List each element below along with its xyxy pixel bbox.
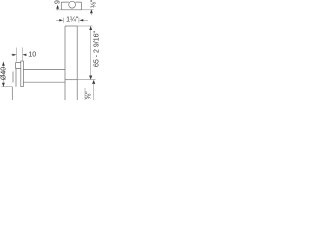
arrow right, dim 1 1/4 left bbox=[59, 19, 63, 21]
svg-text:Ø40: Ø40 bbox=[1, 67, 8, 80]
dim line 65 vertical bbox=[90, 26, 92, 80]
ext stub 1 1/4 left bbox=[63, 18, 65, 23]
ext line plate bottom left bbox=[1, 86, 12, 88]
top view plate outline bbox=[61, 2, 81, 10]
ext line front view top edge right bbox=[77, 25, 92, 27]
top view hook circle bbox=[69, 1, 76, 8]
arrow up, dim 3/8 (top view right) bbox=[90, 9, 93, 13]
dim line 1 1/4 left tail bbox=[56, 19, 60, 21]
side view lower strip cut bbox=[11, 87, 13, 100]
background bbox=[0, 0, 100, 100]
arrow left, dim 1 1/4 right bbox=[79, 19, 83, 21]
arrow left, dim 10 right bbox=[22, 54, 26, 56]
band bottom edge (front) bbox=[23, 81, 65, 83]
band top edge (front) bbox=[23, 68, 65, 70]
arrow down, dim 65 bottom bbox=[89, 76, 92, 80]
dim line lower right vertical bbox=[93, 84, 95, 100]
svg-text:10: 10 bbox=[28, 51, 36, 58]
front view bar left edge bbox=[64, 26, 66, 100]
ext stub 1 1/4 right bbox=[78, 18, 80, 23]
ext line 10 dim right bbox=[21, 48, 23, 61]
dim line 1 1/4 right tail bbox=[83, 19, 88, 21]
ext line front view bottom right bbox=[77, 79, 95, 81]
front view seam line bbox=[65, 79, 77, 81]
dim line 10 left tail bbox=[11, 54, 17, 56]
front view bar right edge bbox=[76, 26, 78, 100]
front view bar top edge bbox=[65, 25, 77, 27]
side view plate outline bbox=[21, 61, 24, 87]
dim line 40 vertical bbox=[2, 62, 4, 87]
ext line right of top view bottom edge bbox=[82, 9, 94, 11]
side view band cross-section bbox=[13, 68, 16, 86]
side view knob outline bbox=[16, 63, 21, 69]
svg-text:9: 9 bbox=[54, 0, 61, 4]
arrow up, dim 65 top bbox=[89, 26, 92, 30]
arrow up, dim 9 (top view left) bbox=[56, 5, 59, 9]
svg-text:1¼": 1¼" bbox=[66, 17, 79, 24]
arrow down, dim 40 bottom bbox=[2, 83, 5, 87]
arrow up, lower right dim bbox=[92, 80, 95, 84]
ext line left of top view bottom edge bbox=[56, 9, 62, 11]
arrow right, dim 10 left bbox=[12, 54, 16, 56]
arrow stem right dim 3/8 bbox=[90, 13, 92, 15]
svg-text:65 - 2 9/16": 65 - 2 9/16" bbox=[93, 31, 100, 67]
ext line 10 dim left bbox=[15, 48, 17, 62]
svg-text:⅝": ⅝" bbox=[86, 91, 93, 100]
arrow up, dim 40 top bbox=[2, 62, 5, 66]
svg-text:⅛": ⅛" bbox=[90, 0, 97, 8]
ext line bottom right cut bbox=[84, 88, 86, 100]
arrow stem left dim 9 bbox=[57, 9, 59, 11]
